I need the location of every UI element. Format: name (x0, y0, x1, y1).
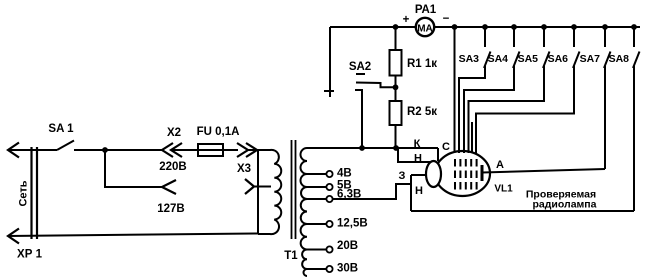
node bus SA3 (482, 24, 488, 30)
svg-text:SA8: SA8 (609, 53, 630, 65)
tap 5V socket (326, 184, 332, 190)
wire bus left segment (330, 26, 416, 28)
node SA2 pole on K wire (359, 145, 365, 151)
switch SA8 (633, 27, 640, 211)
wire bus right segment (434, 26, 640, 28)
node junction 220/127 (102, 147, 108, 153)
svg-text:R2 5к: R2 5к (407, 106, 437, 118)
tap 5V stub (307, 186, 326, 188)
plug XP1 arrow top pin (8, 143, 19, 158)
wire SA1 to connector X2 (74, 149, 162, 151)
svg-text:SA2: SA2 (349, 61, 371, 73)
svg-text:20В: 20В (337, 240, 358, 252)
transformer T1 secondary winding (301, 148, 308, 276)
tube VL1 grid dashes (454, 159, 456, 190)
tube VL1 envelope (435, 151, 490, 196)
svg-text:РА1: РА1 (415, 4, 437, 16)
node bus SA7 (602, 24, 608, 30)
tap 30V socket (326, 266, 332, 272)
svg-text:К: К (414, 138, 421, 150)
svg-text:FU 0,1A: FU 0,1A (197, 126, 240, 138)
tap 12,5V socket (326, 221, 332, 227)
svg-text:220В: 220В (159, 161, 187, 173)
node R2 bottom on K wire (393, 145, 399, 151)
resistor R2 (395, 87, 397, 101)
svg-text:X3: X3 (237, 163, 251, 175)
svg-text:Н: Н (415, 185, 423, 197)
svg-text:С: С (442, 141, 450, 153)
transformer T1 primary winding (257, 150, 259, 234)
tap 4V socket (326, 171, 332, 177)
svg-text:З: З (399, 170, 406, 182)
tap 20V socket (326, 246, 332, 252)
tube VL1 anode plate (481, 165, 484, 181)
svg-text:Сеть: Сеть (18, 180, 30, 206)
plug XP1 arrow bottom pin (8, 229, 19, 244)
svg-text:12,5В: 12,5В (337, 218, 368, 230)
svg-text:ХР 1: ХР 1 (17, 249, 43, 261)
node R1/R2/SA2 junction (393, 84, 399, 90)
svg-text:+: + (403, 14, 410, 26)
svg-text:4В: 4В (337, 168, 352, 180)
node bus SA5 (541, 24, 547, 30)
wire anode to SA7 (482, 169, 605, 173)
svg-text:−: − (443, 13, 450, 25)
svg-text:Т1: Т1 (284, 250, 298, 262)
node bus SA6 (571, 24, 577, 30)
wire K node from secondary top (307, 147, 438, 149)
switch SA6 (476, 27, 580, 153)
svg-text:30В: 30В (337, 263, 358, 275)
wire mains top from XP1 to SA1 (8, 149, 57, 151)
svg-text:SA4: SA4 (488, 53, 509, 65)
wire mains bottom from XP1 to T1 primary (8, 234, 258, 237)
switch SA3 (459, 27, 491, 153)
svg-text:SA 1: SA 1 (48, 123, 74, 135)
switch SA2 blade (356, 83, 393, 88)
wire fuse to X3 (223, 149, 238, 151)
resistor R1 (395, 27, 397, 50)
tap 30V stub (307, 268, 326, 270)
switch SA1 blade (57, 141, 74, 151)
connector XP1 double bars (32, 147, 38, 239)
plus terminal crossbar (324, 90, 334, 92)
wire bottom loop under tube to SA8 (411, 210, 634, 212)
switch SA2 top contact (356, 73, 365, 75)
connector 127V tap pin arrowhead (245, 179, 254, 194)
svg-text:Н: Н (414, 153, 422, 165)
switch SA5 (469, 27, 550, 153)
wire spare grid pin stub (471, 122, 473, 153)
tap 6,3V stub (307, 198, 326, 200)
tap 12,5V stub (307, 223, 326, 225)
wire X2 to fuse (171, 149, 198, 151)
svg-text:радиолампа: радиолампа (533, 199, 597, 211)
fuse FU 0,1A (198, 149, 223, 151)
connector 127V socket arrowhead (162, 180, 176, 194)
wire 6,3V to heater (333, 184, 411, 199)
svg-text:127В: 127В (157, 203, 185, 215)
connector X2 arrowheads (162, 143, 182, 157)
switch SA2 bottom contact and pole wire (355, 90, 362, 148)
svg-text:SA3: SA3 (459, 53, 480, 65)
transformer T1 core (292, 140, 296, 239)
svg-text:X2: X2 (167, 127, 181, 139)
wire X3 to T1 primary top (248, 149, 258, 151)
node bus SA8 (631, 24, 637, 30)
tap 6,3V socket (326, 196, 332, 202)
svg-text:МА: МА (417, 24, 433, 35)
wire bracket Z to bottom loop (410, 175, 412, 211)
svg-text:SA6: SA6 (548, 53, 569, 65)
node R1 top on bus (393, 24, 399, 30)
connector X3 arrowheads (237, 143, 257, 157)
svg-text:SA5: SA5 (518, 53, 539, 65)
tap 4V stub (307, 173, 326, 175)
wire H1 pin from K node (398, 148, 430, 162)
svg-text:SA7: SA7 (580, 53, 601, 65)
wire Z pin (411, 174, 427, 176)
switch SA4 (464, 27, 520, 153)
tap 20V stub (307, 249, 326, 251)
wire 127V branch (105, 150, 162, 187)
tube VL1 pinch oval (426, 161, 441, 187)
wire grid direct drop to tube (454, 27, 456, 153)
wire plus terminal drop (329, 27, 331, 97)
wire K pin into tube (437, 148, 439, 161)
switch SA7 (604, 27, 611, 169)
wire 127V tap to primary (254, 186, 271, 188)
svg-text:А: А (496, 159, 504, 171)
meter PA1 (416, 18, 434, 36)
svg-text:R1 1к: R1 1к (407, 58, 437, 70)
svg-text:VL1: VL1 (494, 184, 513, 195)
node bus SA4 (511, 24, 517, 30)
node bus grid direct (452, 24, 458, 30)
